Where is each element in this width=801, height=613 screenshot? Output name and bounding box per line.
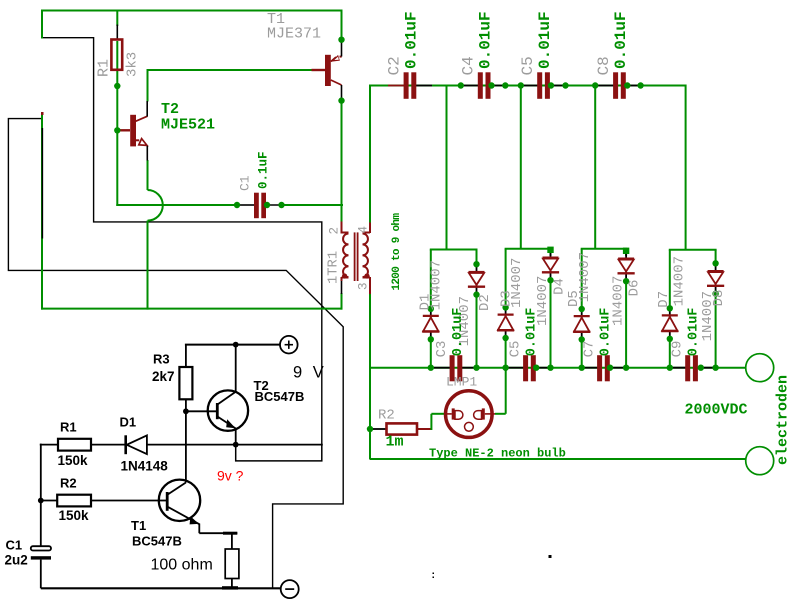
svg-text:9 V: 9 V — [293, 364, 327, 382]
diode D5 1N4007 — [566, 252, 593, 343]
svg-text:C9: C9 — [670, 341, 686, 358]
svg-text:0.01uF: 0.01uF — [477, 11, 495, 69]
node T1 emitter junction — [338, 37, 344, 43]
wire T1 base net — [148, 69, 312, 102]
diode D8 1N4007 — [700, 260, 727, 341]
svg-text:MJE371: MJE371 — [267, 26, 321, 43]
wire black: battery minus to transformer pin1 net — [8, 119, 343, 589]
wire D4 column — [550, 249, 552, 369]
diode D7 1N4007 — [656, 256, 688, 342]
resistor R1 3k3 — [96, 25, 141, 78]
svg-text:MJE521: MJE521 — [161, 117, 215, 134]
node C1 junction dots — [234, 202, 285, 208]
wire T1 collector to TR1 pin2 — [341, 102, 343, 223]
svg-text:C3: C3 — [434, 341, 450, 358]
wire stage 1 feed + T rail — [430, 86, 478, 250]
label 9 V — [293, 364, 327, 382]
svg-text:C8: C8 — [595, 56, 613, 75]
diode D1 1N4007 — [418, 260, 445, 343]
transistor T1 MJE371 — [267, 11, 342, 98]
wire stage 4 feed + T rail — [669, 85, 717, 250]
label 9v ? (red annotation) — [217, 468, 244, 484]
wire R1 column / T2 base net — [116, 10, 118, 207]
capacitor C5 0.01uF (bottom row) — [508, 308, 552, 382]
wire output bottom rail — [370, 458, 746, 460]
svg-text:0.1uF: 0.1uF — [257, 151, 271, 189]
battery plus terminal — [280, 336, 298, 354]
svg-text:0.01uF: 0.01uF — [525, 308, 540, 357]
wire R2 to LMP1 — [431, 414, 446, 430]
resistor R1 150k (lower) — [58, 420, 92, 469]
svg-text:R2: R2 — [378, 408, 395, 424]
wire T1 emitter to rail — [341, 10, 343, 38]
wire T1 emitter to 100 ohm — [199, 524, 237, 550]
lamp LMP1 NE-2 neon bulb — [444, 375, 495, 438]
wire black: top rail to lower oscillator output node — [42, 38, 322, 445]
label 2000VDC — [685, 402, 748, 419]
wire left vertical R1-R2-C1 — [40, 444, 42, 547]
svg-text:T1: T1 — [131, 518, 146, 533]
svg-text:150k: 150k — [58, 453, 89, 468]
diode D2 1N4007 — [457, 261, 493, 346]
svg-text:1N4007: 1N4007 — [700, 291, 716, 341]
capacitor C1 0.1uF — [238, 151, 283, 218]
wire T2 base line — [186, 410, 217, 412]
resistor R3 2k7 — [152, 345, 192, 412]
svg-text:0.01uF: 0.01uF — [612, 11, 630, 69]
svg-text:2k7: 2k7 — [152, 369, 175, 384]
diode D6 1N4007 — [611, 248, 643, 326]
svg-text:1N4007: 1N4007 — [429, 260, 445, 310]
wire stage 2 feed + T rail — [505, 86, 552, 249]
svg-text:3: 3 — [357, 282, 371, 290]
svg-text:0.01uF: 0.01uF — [687, 308, 702, 357]
svg-text:D2: D2 — [477, 294, 493, 311]
wire diode column x=669.8 — [669, 250, 671, 369]
wire lower rectangle loop (output node) — [236, 445, 322, 461]
svg-text:1N4007: 1N4007 — [509, 258, 525, 308]
label electroden — [775, 375, 792, 465]
node junction dots lower — [38, 342, 239, 504]
node R1 bottom junction — [114, 83, 120, 89]
svg-text:D6: D6 — [626, 280, 642, 297]
svg-text:9v ?: 9v ? — [217, 468, 244, 484]
capacitor C3 0.01uF (bottom row) — [434, 308, 478, 382]
electrode terminal bottom — [746, 447, 774, 475]
svg-text:R2: R2 — [60, 476, 77, 491]
svg-text:D7: D7 — [656, 291, 672, 308]
label Type NE-2 neon bulb — [429, 447, 566, 461]
wire TR1 pin3 down to bottom distribution — [369, 294, 371, 460]
node top chain junction dots — [458, 82, 644, 88]
capacitor C2 0.01uF (top row) — [386, 11, 433, 98]
node: green vertical x42 (pin1 net left) — [41, 112, 44, 310]
svg-text:C7: C7 — [582, 341, 598, 358]
svg-text:2: 2 — [328, 227, 342, 235]
wire multiplier top chain — [369, 85, 686, 87]
svg-text:1TR1: 1TR1 — [327, 251, 342, 284]
svg-text:1N4007: 1N4007 — [577, 252, 593, 302]
svg-text:electroden: electroden — [775, 375, 792, 465]
capacitor C4 0.01uF (top row) — [460, 11, 507, 98]
svg-text:0.01uF: 0.01uF — [451, 308, 466, 357]
diode D1 1N4148 — [120, 415, 169, 474]
wire LMP1 right lead up to chain — [495, 367, 506, 414]
transistor T2 BC547B (lower) — [208, 345, 305, 445]
svg-text:C2: C2 — [386, 56, 404, 75]
svg-text:BC547B: BC547B — [132, 534, 182, 549]
transformer TR1 1200-to-9-ohm — [327, 222, 371, 295]
svg-text:T2: T2 — [161, 101, 179, 118]
wire TR1 pin1 to bottom rail — [341, 293, 343, 310]
svg-text:D1: D1 — [120, 415, 137, 430]
capacitor C7 0.01uF (bottom row) — [582, 308, 626, 382]
svg-text:C4: C4 — [460, 56, 478, 75]
wire bottom minus rail — [41, 587, 281, 590]
capacitor C9 0.01uF (bottom row) — [670, 308, 714, 382]
wire TR1 pin4 up to multiplier input — [369, 85, 371, 223]
svg-text:R1: R1 — [96, 59, 113, 77]
resistor 100 ohm — [151, 549, 239, 588]
svg-text:4: 4 — [357, 226, 371, 234]
svg-text:1N4148: 1N4148 — [121, 459, 169, 474]
battery minus terminal — [281, 580, 299, 598]
svg-text:2000VDC: 2000VDC — [685, 402, 748, 419]
capacitor C5 0.01uF (top row) — [519, 11, 566, 98]
svg-text:0.01uF: 0.01uF — [536, 11, 554, 69]
wire diode column x=505.6 — [505, 249, 507, 369]
diode D3 1N4007 — [497, 258, 525, 342]
svg-text:LMP1: LMP1 — [446, 375, 477, 390]
svg-text:BC547B: BC547B — [255, 389, 305, 404]
svg-text:1200 to 9 ohm: 1200 to 9 ohm — [391, 213, 403, 291]
svg-text:C5: C5 — [508, 341, 524, 358]
wire stage 3 feed + T rail — [581, 86, 627, 249]
wire +V left stub — [41, 10, 43, 39]
svg-text:0.01uF: 0.01uF — [403, 11, 421, 69]
node bottom chain junction dots — [428, 365, 719, 371]
transistor T1 BC547B (lower) — [131, 480, 200, 549]
electrode terminal top (2000VDC output) — [746, 354, 774, 382]
capacitor C1 2u2 — [5, 538, 52, 589]
transistor T2 MJE521 — [117, 101, 215, 161]
node T2 base junction — [114, 127, 120, 133]
wire +9V top line — [185, 344, 280, 346]
wire D2 column — [476, 250, 478, 369]
wire +V top rail — [41, 10, 343, 12]
speck — [433, 555, 552, 578]
svg-text:0.01uF: 0.01uF — [599, 308, 614, 357]
svg-text:1m: 1m — [386, 434, 404, 451]
svg-text:C5: C5 — [519, 56, 537, 75]
svg-text:3k3: 3k3 — [125, 52, 141, 77]
svg-text:2u2: 2u2 — [5, 553, 28, 568]
wire diode column x=430.8 — [430, 250, 432, 369]
capacitor C8 0.01uF (top row) — [595, 11, 642, 98]
wire bottom rail of oscillator (to TR1 pin1) — [41, 308, 343, 310]
wire multiplier bottom chain — [370, 367, 746, 369]
wire T1 collector vertical — [185, 411, 187, 482]
node T1 collector junction — [338, 97, 344, 103]
wire D8 column — [715, 250, 717, 369]
diode D4 1N4007 — [535, 247, 568, 326]
svg-text:C1: C1 — [238, 175, 253, 191]
resistor R2 1m — [367, 408, 432, 451]
wire C1 horizontal net — [116, 204, 343, 206]
wire D6 column — [625, 249, 627, 369]
svg-text:C1: C1 — [6, 538, 23, 553]
wire T2 emitter down with wire hop — [148, 160, 163, 310]
wire black overlay on x42 vertical — [41, 128, 43, 239]
svg-text:R1: R1 — [60, 420, 77, 435]
resistor R2 150k (lower) — [41, 476, 159, 524]
svg-text:R3: R3 — [153, 352, 170, 367]
svg-text:1N4007: 1N4007 — [672, 256, 688, 306]
wire diode column x=581.7 — [581, 249, 583, 369]
svg-text:150k: 150k — [59, 508, 90, 523]
wire lower oscillator main horizontal (R1-D1 node line) — [40, 444, 323, 446]
svg-text:D4: D4 — [552, 278, 568, 295]
label transformer value 1200 to 9 ohm — [391, 213, 403, 291]
svg-text:100 ohm: 100 ohm — [151, 557, 213, 574]
